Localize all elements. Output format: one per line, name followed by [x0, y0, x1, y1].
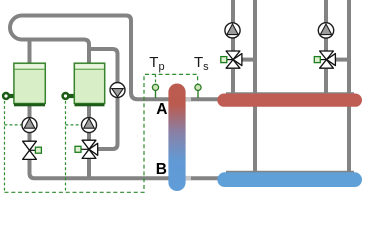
actuator V3 [224, 59, 234, 61]
valve V2 (boiler 2, 3-way) [75, 140, 98, 159]
actuator V1 [35, 147, 41, 153]
actuator V2 [78, 148, 89, 150]
svg-text:Tp: Tp [149, 54, 164, 73]
wire: consumer circuit 1 return riser [253, 0, 257, 173]
wire: separator B port to blue header [183, 176, 220, 180]
wire: dashed sensor1 drop [4, 101, 6, 192]
wire: gray pipe behind blue header [226, 171, 354, 175]
wire: dashed branch to pump 1 [5, 124, 22, 126]
svg-text:B: B [156, 161, 167, 178]
boiler B1 [14, 63, 45, 106]
pump P4 (consumer circuit 1) [225, 23, 240, 38]
wire: gray pipe behind red header [226, 92, 354, 96]
wire: consumer circuit 2 valve bypass [334, 58, 349, 62]
wire: boiler supply manifold U-header to separator port A [10, 16, 170, 100]
wire: boiler 2 return drop [87, 106, 91, 178]
svg-text:Ts: Ts [194, 54, 209, 73]
wire: consumer circuit 1 supply riser [231, 0, 235, 94]
blue return header [217, 172, 362, 187]
wire: consumer circuit 2 return riser [347, 0, 351, 173]
boiler B2 sensor [61, 92, 73, 100]
red supply header [217, 94, 362, 107]
pump P3 (mixing, points down) [110, 83, 125, 98]
wire: separator A port to red header [183, 97, 220, 101]
node B port nipple [184, 176, 191, 181]
wire: consumer circuit 1 valve bypass [241, 58, 255, 62]
wire: mixing branch from manifold through mixing pump to valve V2 side port [89, 49, 118, 149]
valve V3 (consumer circuit 1, 3-way) [221, 51, 242, 70]
wire: dashed Tp stem to controller top [155, 74, 157, 83]
wire: boiler 1 return drop to common return [30, 106, 171, 178]
pump P1 (boiler 1) [22, 118, 37, 133]
svg-text:A: A [156, 101, 167, 118]
valve V4 (consumer circuit 2, 3-way) [314, 51, 335, 70]
sensor Ts [195, 84, 201, 98]
wire: consumer circuit 2 supply riser [324, 0, 328, 94]
wire: boiler 1 top riser [28, 40, 32, 64]
hydraulic separator [168, 84, 185, 192]
pump P2 (boiler 2) [82, 118, 97, 133]
actuator V4 [317, 59, 327, 61]
control signal dashed lines [5, 74, 198, 192]
wire: dashed branch to pump 2 [66, 124, 82, 126]
wire: dashed sensor2 drop [65, 101, 67, 192]
sensor Tp [152, 84, 158, 98]
wire: dashed bottom bus and controller box [5, 74, 198, 192]
pump P5 (consumer circuit 2) [318, 23, 333, 38]
valve V1 (boiler 1, 2-way) [22, 141, 41, 160]
boiler B1 sensor [2, 92, 14, 100]
boiler B2 [74, 63, 104, 106]
node A port nipple [184, 97, 191, 102]
